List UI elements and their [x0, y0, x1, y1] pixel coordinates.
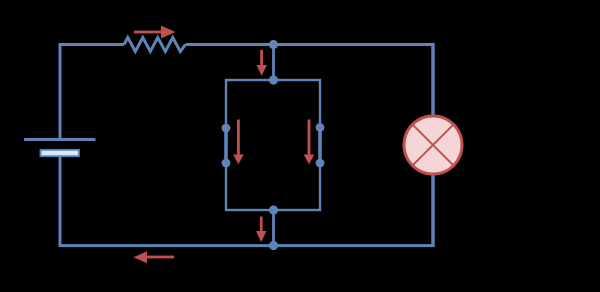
- parallel box wires (rectangle): [226, 80, 320, 210]
- node: right branch lower: [316, 159, 325, 168]
- wire: top left horizontal from battery top to resistor: [60, 45, 124, 140]
- lamp L1 (circle with X): [404, 116, 462, 174]
- node: left branch lower: [222, 159, 231, 168]
- wire: left lower vertical from battery to bottom wire: [59, 157, 62, 248]
- node: bottom of parallel box: [269, 205, 278, 214]
- node: junction on top wire: [269, 40, 278, 49]
- node: left branch upper: [222, 124, 231, 133]
- arrow: current direction over resistor (points right): [134, 26, 176, 39]
- right branch thick segment between nodes: [318, 128, 322, 164]
- arrow: current direction on bottom wire (points left): [134, 251, 175, 263]
- wire: bottom horizontal: [59, 244, 434, 247]
- resistor R1: [124, 38, 186, 52]
- arrow: current into box (points down): [257, 50, 267, 76]
- arrow: left branch current (points down): [233, 120, 244, 165]
- battery: top long plate: [24, 138, 96, 141]
- wire: top horizontal from resistor to right corner: [186, 43, 434, 46]
- node: top of parallel box: [269, 75, 278, 84]
- wire: right vertical upper (top corner to lamp): [431, 43, 435, 247]
- wire: vertical from top wire node into parallel box: [272, 45, 275, 81]
- arrow: current out of box (points down): [256, 217, 267, 243]
- node: junction on bottom wire: [269, 241, 278, 250]
- left branch thick segment between nodes: [224, 128, 228, 163]
- node: right branch upper: [316, 123, 325, 132]
- battery: bottom thick plate: [41, 150, 80, 156]
- arrow: right branch current (points down): [304, 120, 315, 165]
- wire: vertical from box bottom to bottom wire: [272, 210, 275, 246]
